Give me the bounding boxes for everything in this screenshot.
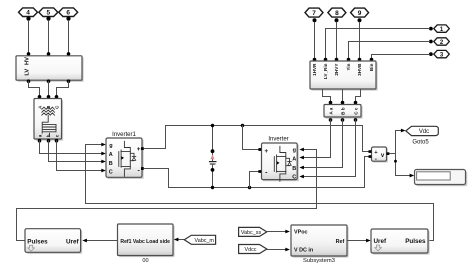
svg-text:B: B: [109, 161, 113, 167]
port 2: [429, 38, 449, 46]
wire LVHV c to T1: [55, 81, 69, 98]
capacitor C1 DC link: [210, 124, 216, 189]
svg-text:7: 7: [312, 10, 316, 17]
svg-text:Ref: Ref: [336, 239, 345, 245]
svg-text:A a: A a: [328, 107, 333, 114]
svg-text:Inverter: Inverter: [268, 137, 288, 143]
svg-text:9: 9: [358, 10, 362, 17]
wire T1 b to inverter1 B: [49, 141, 106, 164]
wire Vabc_ss to subsystem3: [267, 230, 290, 234]
svg-text:B: B: [292, 166, 296, 172]
svg-text:3HVB: 3HVB: [357, 63, 362, 76]
port 1: [429, 25, 449, 33]
svg-text:Bin: Bin: [369, 63, 374, 71]
wire port9 to T2: [358, 22, 362, 61]
subsystem block Ref1 Vabc Load side: [118, 224, 175, 257]
port 5: [39, 8, 58, 21]
svg-text:+: +: [264, 148, 268, 155]
PWM generator block 1 (Pulses/Uref): [25, 229, 82, 254]
svg-text:C: C: [292, 175, 296, 181]
wire inverter1 plus to DC top rail: [144, 124, 369, 152]
transformer block LV/HV: [16, 56, 84, 83]
inverter U1 "Inverter1": [106, 132, 144, 179]
wire T1 c to inverter1 C: [57, 141, 106, 173]
three-phase measurement block Aa Bb Cc: [324, 105, 363, 122]
PWM generator block 2 (Uref/Pulses): [371, 229, 430, 255]
wire subsystem3 Ref to PWM2 Uref: [347, 239, 371, 243]
svg-text:Uref: Uref: [66, 238, 79, 245]
voltage measurement block V1: [369, 147, 390, 163]
port 3: [429, 50, 449, 58]
wire measure a to inverter2 A: [299, 120, 330, 159]
wire measure b to inverter2 B: [299, 120, 342, 169]
from tag Vdcc: [239, 245, 267, 254]
svg-text:LV: LV: [25, 69, 31, 76]
wire port8 to T2: [335, 22, 339, 61]
wire T2 b to measure block: [341, 90, 345, 105]
svg-text:Subsystem3: Subsystem3: [303, 258, 335, 264]
from tag Vabc_ss: [239, 227, 267, 236]
wire port6 to transformer block: [67, 21, 71, 56]
wire T2 c to measure block: [354, 90, 361, 105]
svg-text:LV_Rin: LV_Rin: [323, 63, 328, 79]
svg-text:Vabc_m: Vabc_m: [195, 238, 215, 244]
svg-text:6: 6: [66, 10, 70, 17]
svg-text:HV: HV: [25, 57, 31, 65]
svg-text:g: g: [293, 148, 296, 154]
svg-text:1HVR: 1HVR: [312, 63, 317, 76]
svg-text:b: b: [46, 134, 51, 137]
port 6: [59, 8, 78, 21]
port 9: [351, 8, 369, 22]
wire Ref1 block to PWM1 Uref: [82, 239, 117, 243]
svg-text:A: A: [292, 156, 296, 162]
from tag Vabc_m: [184, 235, 215, 244]
svg-text:B b: B b: [340, 107, 345, 115]
wire Vabc_m tag to Ref1 block: [174, 238, 185, 242]
svg-text:Vabc_ss: Vabc_ss: [241, 230, 262, 236]
svg-text:VPoc: VPoc: [294, 230, 307, 236]
wire T2 Bin to port3: [370, 55, 430, 62]
svg-text:Vdc: Vdc: [419, 129, 429, 135]
wire T2 a to measure block: [323, 90, 333, 105]
svg-text:Inverter1: Inverter1: [112, 132, 136, 138]
wire port4 to transformer block: [27, 21, 31, 56]
svg-text:A: A: [109, 152, 113, 158]
svg-text:Ref1 Vabc Load side: Ref1 Vabc Load side: [120, 239, 170, 245]
transformer T2 grounding/zigzag: [310, 61, 378, 91]
svg-text:Yin: Yin: [346, 63, 351, 70]
port 8: [328, 8, 346, 22]
wire inverter1 minus to DC bottom rail: [144, 157, 369, 190]
svg-text:Pulses: Pulses: [405, 238, 426, 245]
inverter U2 "Inverter": [258, 137, 298, 182]
svg-text:g: g: [109, 143, 112, 149]
subsystem3 block: [291, 225, 349, 258]
wire Vdcc to subsystem3: [267, 248, 290, 252]
svg-text:Uref: Uref: [374, 238, 387, 245]
wire T1 a to inverter1 A: [40, 141, 106, 156]
display block: [415, 170, 468, 187]
port 7: [305, 8, 323, 22]
wire PWM2 pulses to inverter1 gate g: [86, 143, 434, 241]
transformer T1 three-phase: [34, 99, 63, 143]
svg-text:C: C: [109, 170, 113, 176]
wire port7 to T2: [313, 22, 317, 61]
svg-text:C c: C c: [353, 107, 358, 115]
svg-text:V DC in: V DC in: [294, 248, 313, 254]
wire DC bottom rail to inverter2 minus: [250, 172, 259, 188]
wire port5 to transformer block: [47, 21, 51, 56]
wire T2 LV_Rin to port1: [324, 29, 430, 62]
svg-text:Pulses: Pulses: [27, 238, 48, 245]
svg-text:00: 00: [142, 258, 148, 264]
svg-text:4: 4: [26, 10, 30, 17]
wire measure c to inverter2 C: [299, 120, 355, 178]
svg-text:5: 5: [46, 10, 50, 17]
wire PWM1 pulses to inverter2 gate g: [17, 148, 317, 241]
svg-text:2HVY: 2HVY: [334, 64, 339, 76]
svg-text:Vdcc: Vdcc: [245, 247, 257, 253]
wire LVHV a to T1: [29, 81, 42, 98]
wire LVHV b to T1: [47, 81, 51, 98]
wire V1 output to Goto and Display: [389, 129, 414, 178]
port 4: [19, 8, 38, 21]
svg-text:8: 8: [335, 10, 339, 17]
svg-text:+: +: [374, 150, 378, 156]
wire T2 Yin to port2: [347, 42, 430, 62]
svg-text:-: -: [375, 157, 377, 163]
svg-text:Goto5: Goto5: [412, 140, 429, 146]
wire DC top rail to inverter2 plus: [243, 126, 259, 150]
svg-text:+: +: [137, 146, 141, 153]
goto tag Vdc: [406, 126, 439, 135]
